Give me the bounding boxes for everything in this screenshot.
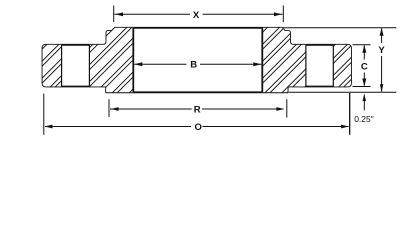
svg-text:C: C xyxy=(361,62,368,73)
dimension R (raised face diameter) xyxy=(109,99,287,117)
dimension X (hub diameter) xyxy=(114,6,284,23)
svg-text:O: O xyxy=(195,122,202,133)
svg-text:X: X xyxy=(193,10,200,21)
dimension Y (length through hub) xyxy=(283,28,397,93)
hatch: right hub and ring section xyxy=(262,28,306,93)
hatch: left hub and ring section xyxy=(89,28,133,93)
dimension O (flange outside diameter) xyxy=(44,93,350,135)
dimension 0.25 inch raised face height xyxy=(363,93,366,110)
hatch: left outer ring section xyxy=(43,45,62,87)
svg-text:0.25": 0.25" xyxy=(354,114,374,124)
flange body outline (slip-on flange cross-section with hub and raised face) xyxy=(43,28,352,93)
svg-text:R: R xyxy=(194,104,201,115)
dimension C (flange thickness) xyxy=(353,45,371,87)
svg-text:B: B xyxy=(190,60,197,71)
bolt hole left xyxy=(62,45,90,87)
dimension B (bore diameter) xyxy=(134,62,261,66)
bore wall right xyxy=(261,28,263,93)
svg-text:Y: Y xyxy=(378,45,385,56)
bolt hole right xyxy=(306,45,333,87)
bore wall left xyxy=(132,28,134,93)
hatch: right outer ring section xyxy=(333,45,351,87)
